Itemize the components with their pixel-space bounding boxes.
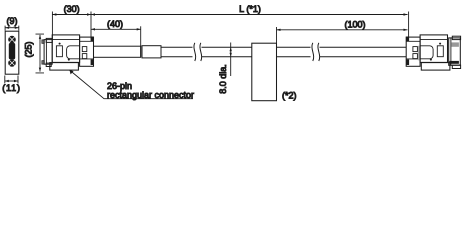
left connector side view: front screw tips [42, 40, 44, 43]
left connector side view: body top seam line [52, 38, 79, 40]
cable ring sleeve after boot [142, 46, 161, 58]
end view: top thumbscrew knob [8, 36, 16, 44]
end view: dark mating face rectangle [9, 43, 15, 59]
svg-text:(9): (9) [7, 16, 18, 26]
dimension L (*1): line with arrows [91, 14, 408, 16]
dimension (9): extension ticks [5, 26, 19, 31]
svg-text:(100): (100) [344, 20, 365, 30]
right connector side view: dark corner tabs on hump [406, 37, 409, 42]
extension line at x=91 (L reference) [90, 12, 92, 39]
dimension (25): extension ticks [36, 34, 45, 73]
right connector side view: latch recess (rounded right) [420, 46, 433, 59]
svg-text:rectangular connector: rectangular connector [107, 90, 194, 100]
wire: cable segment 4 [320, 47, 407, 57]
dimension (30): line with arrows [52, 14, 91, 16]
wire: cable segment 2 [202, 47, 252, 57]
right connector side view: body bottom foot [421, 63, 450, 71]
right connector side view: main body [420, 35, 447, 63]
cable break symbol 2 [312, 43, 314, 61]
extension line at x=408.6 (right connector reference) [408, 12, 410, 38]
left connector side view: stacked square details [82, 47, 87, 52]
left connector side view: flange top tab [46, 38, 52, 42]
right connector side view: rear shell hump [406, 37, 420, 66]
wire: cable segment 3 [277, 47, 311, 57]
dimension 8.0 dia: vertical line with arrows [230, 43, 232, 77]
left connector side view: cable slot rectangle [56, 46, 62, 57]
left connector: bend-protection boot (40mm section) [94, 46, 141, 57]
dimension (100): line with arrows [277, 29, 408, 31]
right connector side view: flange bottom tab [452, 65, 460, 68]
left connector side view: latch recess (rounded left) [67, 46, 80, 59]
left connector side view: screw dots [59, 43, 61, 45]
right connector side view: flange top tab [452, 36, 460, 39]
right connector side view: flange dark band [449, 61, 459, 64]
molded branch part (*2) [252, 43, 277, 100]
left connector side view: flange inner line [45, 40, 47, 65]
left connector side view: dark corner tabs on hump [91, 37, 94, 42]
dimension (9): line with arrows [5, 27, 19, 29]
dimension (11): extension ticks [5, 76, 18, 84]
end view: bottom thumbscrew knob [8, 59, 16, 67]
right connector side view: latch recess shading [418, 46, 420, 61]
svg-text:(30): (30) [64, 4, 80, 14]
svg-text:(11): (11) [2, 83, 21, 93]
right connector side view: body top seam line [420, 38, 447, 40]
left connector side view: main body [52, 35, 79, 63]
svg-text:(*2): (*2) [282, 90, 297, 100]
svg-text:(25): (25) [24, 41, 34, 57]
wire: cable segment 1 [161, 47, 193, 57]
dimension (11): line with arrows [5, 80, 18, 82]
left connector side view: hump inner seam lines [80, 41, 94, 59]
left connector side view: front flange plate [44, 40, 52, 65]
cable break symbol 1 [194, 43, 196, 61]
left connector side view: flange bottom tab [46, 63, 51, 66]
dimension (25): vertical line with arrows [39, 35, 41, 72]
extension line at x=52.4 [51, 12, 53, 40]
right connector side view: stacked square details [413, 47, 418, 52]
extension line at x=140.7 [140, 26, 142, 57]
right connector side view: screw dots [439, 43, 441, 45]
connector end view: outer housing [5, 31, 19, 74]
leader line to 26-pin connector label [70, 70, 194, 99]
left connector side view: rear shell hump [80, 37, 94, 66]
left connector side view: body bottom foot [50, 63, 79, 71]
right connector side view: cable slot rectangle [437, 46, 443, 57]
right connector side view: hump inner seam lines [406, 41, 420, 59]
end view: knob slot highlights [9, 37, 14, 42]
right connector side view: flange inner line [450, 38, 452, 65]
extension line at x=276.5 (branch point) [276, 27, 278, 43]
svg-text:8.0 dia.: 8.0 dia. [218, 64, 228, 94]
svg-text:(40): (40) [107, 19, 123, 29]
right connector side view: flange gray band [452, 42, 459, 46]
svg-text:L (*1): L (*1) [239, 4, 261, 14]
dimension (40): line with arrows [91, 28, 141, 30]
right connector side view: front flange plate [449, 38, 461, 65]
